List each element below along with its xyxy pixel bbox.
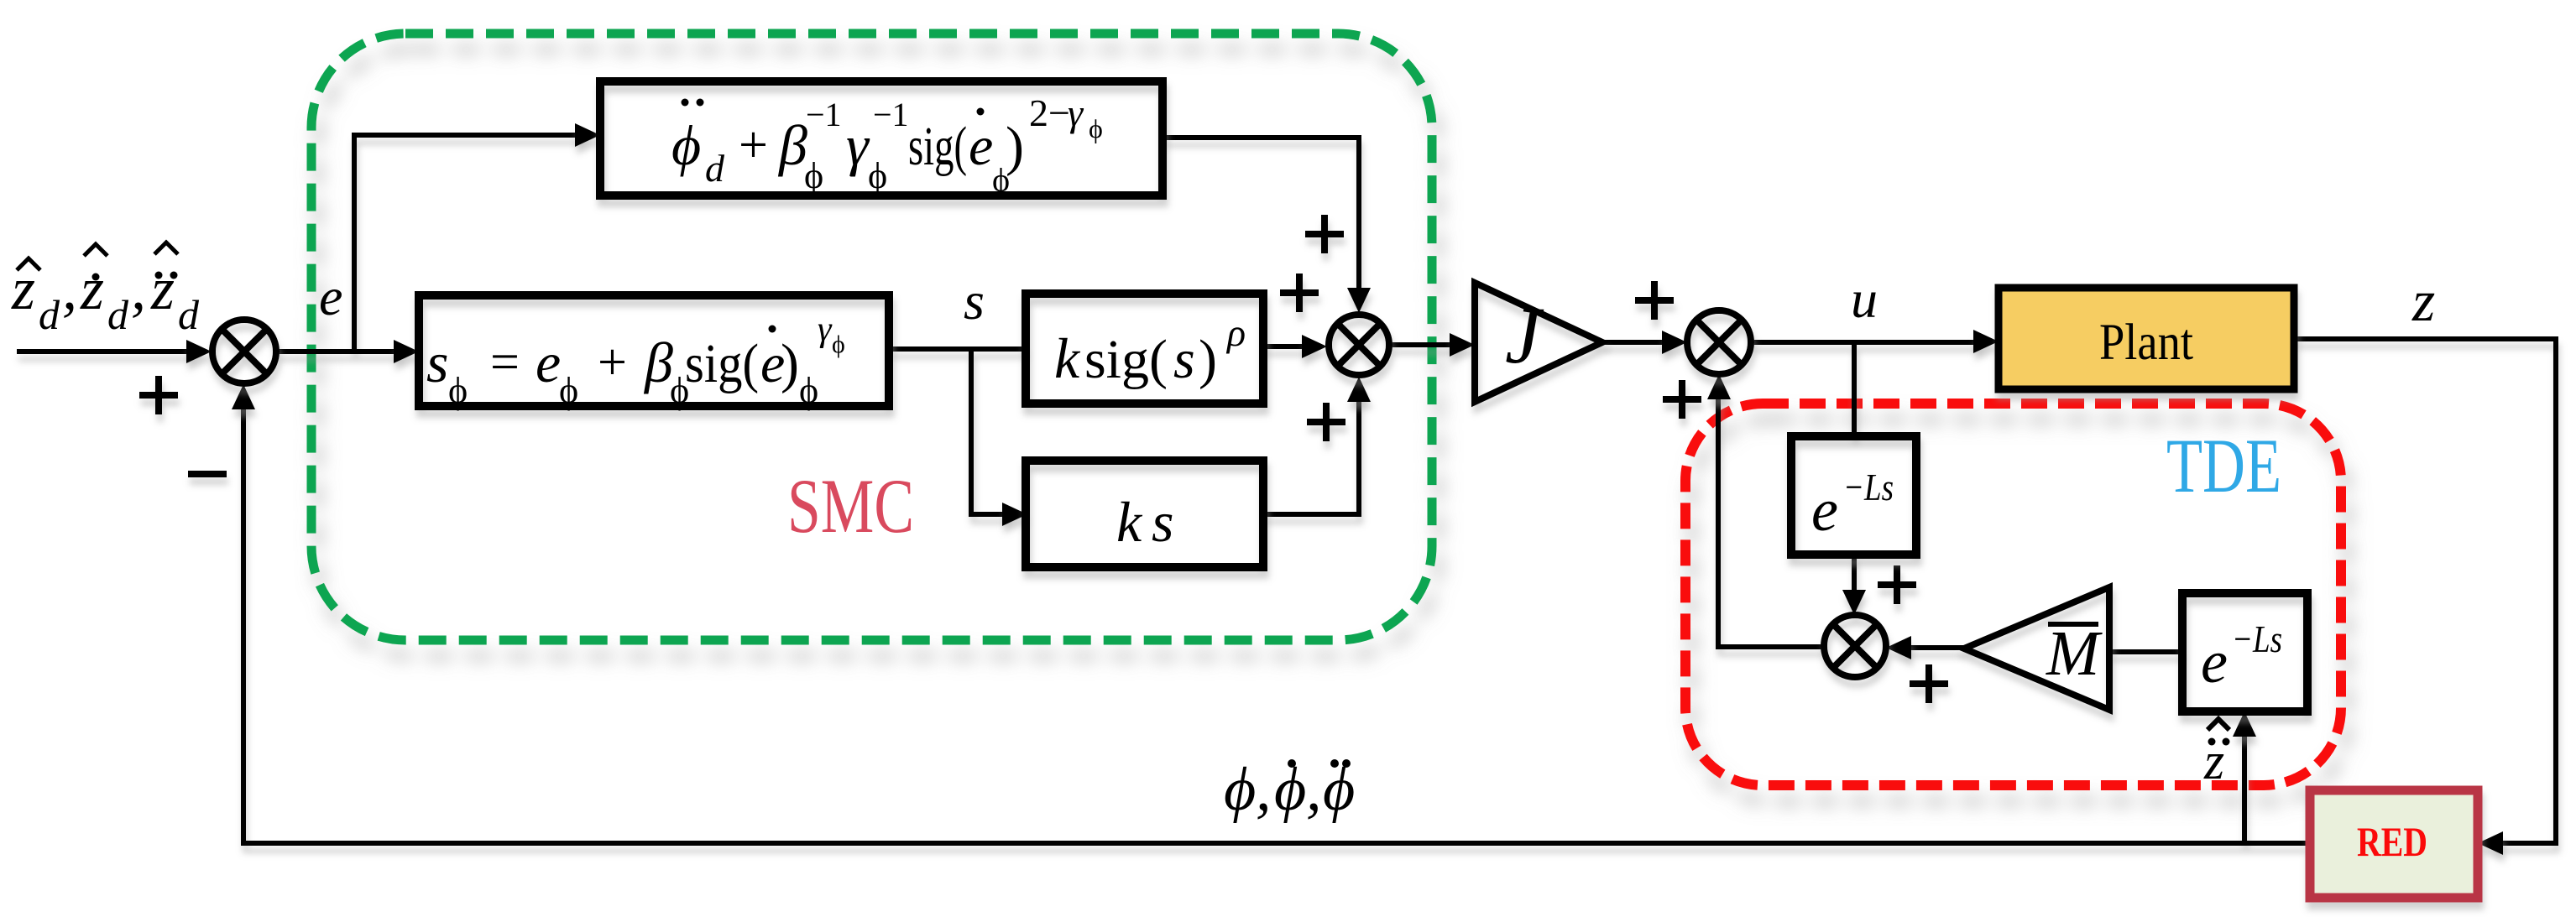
svg-text:SMC: SMC: [787, 463, 914, 549]
svg-text:ϕ: ϕ: [448, 370, 468, 411]
svg-text:TDE: TDE: [2166, 423, 2281, 508]
svg-text:+: +: [598, 334, 627, 391]
svg-text:s: s: [964, 271, 985, 331]
svg-text:ϕ: ϕ: [559, 370, 578, 411]
svg-text:+: +: [739, 117, 768, 174]
svg-text:d: d: [178, 291, 200, 338]
svg-text:e: e: [969, 116, 993, 177]
svg-text:γ: γ: [846, 113, 870, 177]
svg-text:d: d: [39, 291, 60, 338]
svg-text:sig(: sig(: [685, 333, 759, 394]
svg-text:e: e: [1811, 477, 1838, 544]
svg-text:k: k: [1116, 490, 1143, 554]
svg-text:Plant: Plant: [2099, 315, 2193, 371]
svg-text:e: e: [536, 331, 561, 394]
svg-text:sig(: sig(: [1084, 329, 1168, 390]
svg-text:β: β: [777, 113, 807, 177]
svg-text:2−: 2−: [1029, 91, 1070, 134]
svg-text:z: z: [80, 255, 104, 322]
svg-text:d: d: [705, 147, 725, 190]
svg-text:): ): [1006, 116, 1024, 177]
svg-text:s: s: [1152, 490, 1173, 554]
svg-text:J: J: [1505, 290, 1544, 380]
svg-text:−1: −1: [873, 96, 909, 133]
svg-text:=: =: [490, 334, 520, 391]
svg-text:e: e: [319, 267, 342, 326]
svg-text:e: e: [2201, 628, 2228, 696]
svg-text:γ: γ: [818, 310, 833, 349]
svg-text:−1: −1: [806, 96, 842, 133]
svg-text:d: d: [107, 291, 129, 338]
svg-text:β: β: [643, 331, 673, 394]
svg-text:ϕ: ϕ: [1323, 755, 1355, 824]
svg-text:ϕ: ϕ: [868, 155, 887, 196]
svg-text:,: ,: [62, 255, 77, 322]
svg-text:ϕ: ϕ: [1089, 113, 1103, 143]
svg-text:γ: γ: [1068, 91, 1084, 134]
svg-text:u: u: [1851, 269, 1878, 329]
svg-text:RED: RED: [2357, 818, 2427, 865]
svg-text:ϕ: ϕ: [832, 331, 845, 358]
svg-text:ϕ: ϕ: [799, 370, 818, 411]
svg-text:−Ls: −Ls: [2232, 617, 2282, 660]
svg-text:z: z: [150, 255, 175, 322]
svg-text:): ): [1199, 329, 1217, 390]
svg-text:ϕ: ϕ: [671, 113, 701, 177]
svg-text:,: ,: [1256, 755, 1272, 824]
svg-text:s: s: [1173, 329, 1195, 390]
svg-text:ρ: ρ: [1225, 311, 1246, 354]
svg-text:): ): [781, 333, 799, 394]
svg-text:z: z: [2411, 269, 2435, 334]
svg-text:−Ls: −Ls: [1843, 466, 1894, 508]
svg-text:sig(: sig(: [908, 116, 967, 177]
svg-text:k: k: [1054, 326, 1081, 390]
svg-text:,: ,: [131, 255, 146, 322]
svg-text:ϕ: ϕ: [1224, 755, 1256, 824]
svg-text:M: M: [2046, 618, 2103, 689]
svg-text:s: s: [426, 331, 448, 394]
svg-text:,: ,: [1306, 755, 1322, 824]
svg-text:ϕ: ϕ: [804, 155, 823, 196]
